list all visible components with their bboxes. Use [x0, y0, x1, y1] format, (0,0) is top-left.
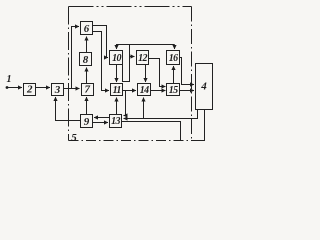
svg-text:4: 4	[200, 81, 207, 93]
wire: block 14 to block 15	[151, 90, 166, 92]
wire: block 15 to block 4 left	[180, 90, 195, 92]
block 2	[24, 84, 36, 96]
svg-text:7: 7	[84, 84, 90, 96]
wire: block 2 to block 3	[36, 87, 51, 89]
svg-text:6: 6	[84, 23, 90, 35]
svg-text:8: 8	[83, 54, 89, 66]
wire: block 12 to block 15 left	[149, 59, 166, 87]
block 10	[110, 51, 123, 65]
wire: block 9 left to block 3 bottom	[56, 97, 81, 121]
wire: block 4 feedback to block 13 right with riser into block 14 bottom	[124, 110, 198, 119]
wire: block 3 to block 7	[64, 88, 80, 90]
wire: block 8 to block 6	[86, 37, 88, 53]
block 13	[110, 115, 122, 128]
block 4	[196, 64, 213, 110]
wire: junction to block 6 left input	[72, 27, 80, 89]
wire: block 12 to block 14	[145, 65, 147, 83]
wire: block 13 output to bottom line	[122, 122, 181, 141]
node: input terminal dot	[6, 86, 9, 89]
dashed enclosure frame 5	[69, 7, 192, 141]
svg-text:13: 13	[111, 116, 120, 127]
block 15	[167, 84, 180, 96]
svg-text:5: 5	[71, 132, 77, 144]
svg-text:10: 10	[112, 53, 121, 64]
wire: block 10 to block 11	[116, 65, 118, 83]
wire: block 6 to block 10 left input	[93, 26, 109, 58]
svg-text:14: 14	[140, 85, 149, 96]
wire: block 16 to block 4 left	[180, 58, 195, 85]
block 11	[111, 84, 123, 96]
block 12	[137, 51, 149, 65]
svg-text:12: 12	[138, 53, 147, 64]
wire: riser from feedback into block 14 bottom	[143, 98, 145, 119]
wire: block 10 bottom loop to block 12 left	[123, 57, 135, 82]
svg-text:16: 16	[169, 53, 178, 64]
block 8	[80, 53, 92, 66]
wire: top bus to block 16 top	[174, 45, 176, 50]
block 16	[167, 51, 180, 65]
svg-text:15: 15	[169, 85, 178, 96]
wire: top bus to block 10 top	[117, 45, 175, 50]
wire: riser from loop to top bus	[129, 45, 131, 57]
wire: block 11 to block 14	[123, 90, 136, 92]
block 3	[52, 84, 64, 96]
wire: block 7 to block 8	[86, 68, 88, 84]
svg-text:3: 3	[54, 84, 61, 96]
svg-text:1: 1	[7, 74, 12, 85]
wire: block 6 to block 11 left input	[93, 32, 110, 91]
wire: block 13 to block 11	[116, 98, 118, 115]
wire: block 9 to block 13	[93, 122, 109, 124]
block 7	[82, 84, 94, 96]
block 14	[138, 84, 151, 96]
wire: input node to block 2	[7, 87, 22, 89]
wire: block 9 to block 7	[86, 97, 88, 115]
svg-text:9: 9	[84, 116, 90, 128]
svg-text:2: 2	[26, 84, 33, 96]
block 6	[81, 22, 93, 35]
wire: block 4 bottom feedback to bottom line	[192, 110, 205, 141]
wire: block 13 to block 9	[94, 117, 110, 119]
wire: block 15 to block 16	[173, 66, 175, 84]
svg-text:11: 11	[113, 85, 121, 96]
wire: branch from 11-14 wire down into block 13 right	[124, 91, 126, 116]
block 9	[81, 115, 93, 128]
